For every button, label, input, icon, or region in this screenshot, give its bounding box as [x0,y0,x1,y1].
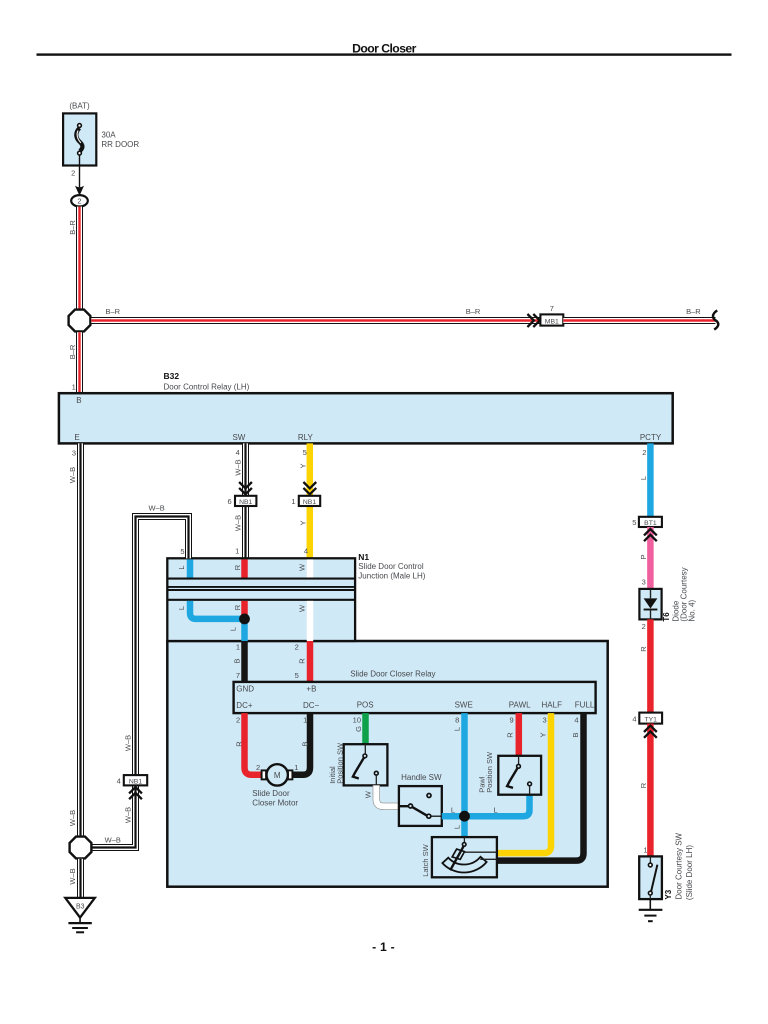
svg-text:B32: B32 [164,371,180,381]
wire B from N1 pin 1 to relay GND pin 7 [241,641,248,682]
svg-text:B–R: B–R [466,307,481,316]
wire Y from RLY pin to NB1 and on to N1 pin 4 [307,443,314,558]
svg-text:Slide Door Closer Relay: Slide Door Closer Relay [350,670,435,679]
initial position switch [328,742,388,785]
svg-text:TY1: TY1 [644,716,657,723]
svg-text:4: 4 [574,716,578,725]
name label T6 Diode (Door Courtesy No. 4) [662,567,697,621]
svg-text:30A: 30A [101,130,116,139]
svg-text:Handle SW: Handle SW [401,773,442,782]
svg-text:B–R: B–R [686,307,701,316]
svg-text:R: R [233,564,242,570]
svg-text:(BAT): (BAT) [69,101,90,110]
name label Y3 Door Courtesy SW (Slide Door LH) [664,832,694,900]
svg-text:SWE: SWE [455,701,473,710]
svg-text:E: E [74,433,79,442]
svg-text:RR DOOR: RR DOOR [101,140,139,149]
svg-text:1: 1 [294,763,298,772]
svg-text:B–R: B–R [68,220,77,235]
svg-text:R: R [234,741,243,747]
svg-text:Door Courtesy SW: Door Courtesy SW [675,832,684,899]
connector NB1 pin 4 [117,775,148,799]
svg-text:Position SW: Position SW [485,751,494,793]
junction dot L [459,811,470,822]
svg-text:2: 2 [71,169,75,178]
junction dot in N1 [239,614,250,625]
svg-text:W: W [364,790,373,798]
chevron arrow at BT1 [644,529,657,541]
wire L inside N1 section 1 [187,559,194,577]
connector circle 2 [71,195,88,206]
handle switch [399,773,442,826]
svg-text:8: 8 [455,716,459,725]
svg-text:B: B [233,658,242,663]
svg-text:M: M [274,771,281,780]
svg-text:4: 4 [632,714,636,723]
svg-text:1: 1 [72,382,76,391]
svg-text:Y: Y [299,463,308,468]
svg-text:SW: SW [232,433,245,442]
svg-text:4: 4 [117,776,121,785]
svg-text:B–R: B–R [106,307,121,316]
svg-text:W–B: W–B [234,515,243,531]
svg-text:PAWL: PAWL [509,701,531,710]
wire W-B from E pin down to ground junction [77,443,84,836]
svg-text:R: R [639,646,648,652]
svg-text:W: W [298,563,307,571]
svg-text:4: 4 [236,448,240,457]
svg-text:RLY: RLY [298,433,314,442]
svg-text:1: 1 [236,642,240,651]
svg-text:5: 5 [303,448,307,457]
svg-text:W: W [298,604,307,612]
svg-text:B: B [300,741,309,746]
wire W-B from SW pin to NB1 and on to N1 pin 1 [242,443,249,558]
svg-text:1: 1 [291,497,295,506]
svg-text:L: L [229,627,238,631]
svg-text:NB1: NB1 [239,499,252,506]
svg-text:R: R [639,782,648,788]
svg-text:R: R [298,658,307,664]
wire L from junction dot to pawl position switch [465,795,530,817]
svg-text:3: 3 [543,716,547,725]
junction node octagon upper [69,310,91,332]
arrow into connector 2 [75,186,84,196]
svg-text:5: 5 [180,547,184,556]
wire B-R junction to B32 pin 1 [76,332,83,393]
connector NB1 pin 1 [291,482,320,506]
wire W-B branch from ground junction via NB1 to N1 pin 5 [91,517,188,848]
svg-text:W–B: W–B [105,835,121,844]
svg-text:Latch SW: Latch SW [421,843,430,876]
svg-text:L: L [453,825,462,829]
svg-text:NB1: NB1 [303,499,316,506]
wire B from DC- to motor [292,713,310,775]
svg-text:L: L [451,805,455,814]
svg-text:7: 7 [236,671,240,680]
svg-text:W–B: W–B [68,467,77,483]
svg-text:3: 3 [642,578,646,587]
svg-text:1: 1 [643,846,647,855]
wire B from FULL to latch switch [497,713,583,861]
svg-text:N1: N1 [358,552,369,562]
wire L from PCTY to BT1 [647,443,654,517]
svg-text:Junction (Male LH): Junction (Male LH) [358,571,425,580]
wire L from junction dot down to N1 pin 1 [241,619,248,641]
svg-text:W–B: W–B [124,807,133,823]
svg-text:+B: +B [306,684,316,693]
connector NB1 pin 6 [228,482,257,506]
svg-text:2: 2 [236,716,240,725]
wire P from BT1 to diode T6 [647,527,654,589]
wire W inside N1 section 2 [307,601,314,641]
latch switch [421,837,497,877]
svg-text:L: L [494,805,498,814]
slide door closer unit outer box [167,641,607,887]
svg-text:B: B [76,396,81,405]
wire R from PAWL to pawl position switch [516,713,523,756]
wire from fuse to connector 2 [79,155,81,187]
title Door Closer [37,41,732,56]
wire B-R horizontal junction to MB1 [91,317,540,324]
wire R from N1 pin 2 to relay +B pin 5 [307,641,314,682]
connector TY1 pin 4 [632,713,662,724]
wire B-R from connector 2 to junction [76,207,83,309]
svg-text:DC+: DC+ [236,701,253,710]
svg-text:L: L [177,565,186,569]
connector BT1 pin 5 [632,517,662,527]
svg-text:9: 9 [510,716,514,725]
svg-text:7: 7 [550,304,554,313]
svg-text:2: 2 [77,197,81,206]
ground symbol below Y3 [639,899,663,921]
svg-text:Door Control Relay (LH): Door Control Relay (LH) [164,382,250,391]
wire Y from HALF to latch switch [497,713,551,853]
svg-text:W–B: W–B [124,735,133,751]
svg-text:PCTY: PCTY [640,433,662,442]
svg-text:4: 4 [304,546,308,555]
svg-text:1: 1 [303,716,307,725]
fuse 30A RR DOOR [63,113,96,165]
svg-text:Position SW: Position SW [335,742,344,784]
svg-text:Y: Y [539,732,548,737]
svg-text:2: 2 [642,448,646,457]
diode T6 Door Courtesy No. 4 [639,589,661,620]
svg-text:(Slide Door LH): (Slide Door LH) [685,845,694,900]
svg-text:L: L [453,727,462,731]
connector MB1 pin 7 [527,304,563,327]
chevron arrow at TY1 [644,726,657,738]
svg-text:6: 6 [228,497,232,506]
wire L from SWE down through junction dot to latch switch [461,713,468,837]
wire R from TY1 to Y3 [647,724,654,857]
relay block Slide Door Closer Relay [234,670,596,714]
ground symbol below B3 [68,918,91,933]
wire R inside N1 section 2 [241,601,248,619]
wire R from DC+ to motor [245,713,262,775]
svg-text:BT1: BT1 [644,520,657,527]
svg-text:W–B: W–B [148,504,164,513]
svg-text:G: G [354,726,363,732]
relay B32 Door Control Relay (LH) [59,371,673,443]
svg-text:Y: Y [299,520,308,525]
continuation symbol at wire end [713,310,718,329]
ground point B3 [65,898,95,918]
svg-text:Slide Door Control: Slide Door Control [358,562,424,571]
svg-text:Y3: Y3 [664,889,673,899]
junction connector N1 Slide Door Control Junction (Male LH) [167,558,355,641]
pawl position switch [478,751,542,795]
svg-text:DC−: DC− [303,701,320,710]
svg-text:10: 10 [353,716,361,725]
svg-text:3: 3 [72,448,76,457]
svg-text:5: 5 [632,518,636,527]
svg-text:5: 5 [295,671,299,680]
svg-text:Door Closer: Door Closer [352,41,417,55]
svg-text:W–B: W–B [234,459,243,475]
svg-text:Slide Door: Slide Door [252,789,290,798]
svg-text:B: B [571,732,580,737]
svg-text:2: 2 [256,763,260,772]
svg-text:R: R [233,604,242,610]
switch Y3 Door Courtesy SW (Slide Door LH) [639,856,662,899]
svg-text:FULL: FULL [575,701,595,710]
wire R from T6 to TY1 [647,619,654,712]
wire L inside N1 section 2 elbow to junction dot [190,601,245,619]
svg-text:R: R [505,732,514,738]
svg-text:2: 2 [295,642,299,651]
svg-text:T6: T6 [662,612,671,622]
svg-text:HALF: HALF [542,701,563,710]
junction node octagon lower [70,837,92,859]
svg-text:2: 2 [642,622,646,631]
wire W inside N1 section 1 [307,559,314,577]
wire B-R from MB1 to page edge [563,317,715,324]
wire R inside N1 section 1 [241,559,248,577]
name label N1 [358,552,425,580]
svg-text:B–R: B–R [68,344,77,359]
svg-text:B3: B3 [76,904,85,911]
svg-text:W–B: W–B [68,868,77,884]
svg-text:- 1 -: - 1 - [372,940,395,954]
value label 30A RR DOOR [101,130,139,148]
svg-text:NB1: NB1 [129,778,142,785]
svg-text:L: L [177,606,186,610]
svg-text:No. 4): No. 4) [688,599,697,621]
motor M Slide Door Closer Motor [252,763,298,807]
wire W-B from junction to ground B3 [77,859,84,898]
svg-text:MB1: MB1 [545,318,559,325]
wire G from POS to initial position switch [362,713,369,744]
wire L from handle switch to junction dot [442,813,465,820]
svg-text:P: P [639,554,648,559]
svg-text:L: L [639,476,648,480]
wire W from initial position switch to handle switch [376,785,399,806]
svg-text:Closer Motor: Closer Motor [252,798,298,807]
svg-text:1: 1 [235,546,239,555]
svg-text:GND: GND [236,684,254,693]
svg-text:W–B: W–B [68,810,77,826]
svg-text:POS: POS [357,701,374,710]
